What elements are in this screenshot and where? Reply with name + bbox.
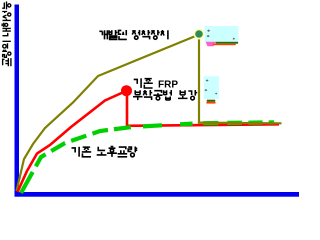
svg-text:FRP: FRP (158, 80, 178, 91)
